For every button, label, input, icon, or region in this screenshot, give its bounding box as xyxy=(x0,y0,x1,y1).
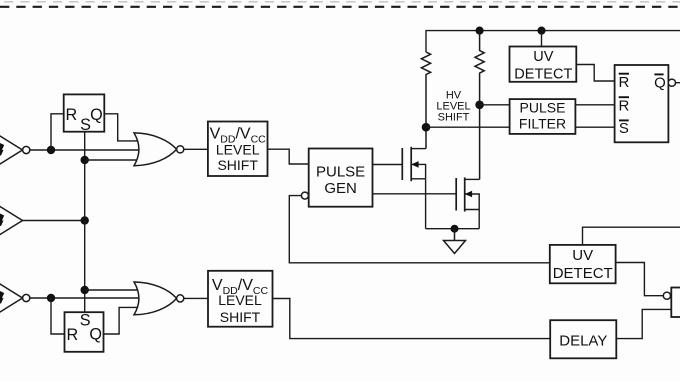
text: level shift 2 xyxy=(212,277,269,325)
svg-text:DELAY: DELAY xyxy=(559,332,607,349)
svg-text:R: R xyxy=(66,106,78,124)
transistor M1 (left HV NMOS) xyxy=(402,147,426,181)
svg-text:PULSE: PULSE xyxy=(520,100,566,116)
dashed outline shadow xyxy=(4,1,680,3)
delay box xyxy=(550,320,616,358)
wire latch U3 Q to NOR2 xyxy=(104,307,139,334)
input buffer B1 (Schmitt inverter, top) xyxy=(0,131,30,169)
svg-text:R: R xyxy=(618,97,629,114)
wire LS2 out to delay xyxy=(273,299,551,339)
svg-text:DETECT: DETECT xyxy=(553,265,613,282)
svg-text:SHIFT: SHIFT xyxy=(217,157,258,173)
node: B3 line / latch2 R xyxy=(47,294,55,302)
pulse gen box xyxy=(301,149,372,207)
wire G1 out to level shift 1 xyxy=(184,148,208,150)
wire R2 node to pulse filter xyxy=(480,104,510,106)
wire latch U1 Q to NOR1 xyxy=(104,114,138,141)
UV detect box UV1 (top) xyxy=(510,47,577,82)
svg-text:Q: Q xyxy=(89,326,102,344)
text: pulse gen xyxy=(316,164,365,198)
node: source rail / ground xyxy=(451,225,459,233)
resistor R2 xyxy=(475,31,484,180)
node: B1 line / latch R xyxy=(47,146,55,154)
text: latch U2 labels xyxy=(618,74,665,137)
svg-text:DETECT: DETECT xyxy=(514,67,572,83)
svg-text:LEVEL: LEVEL xyxy=(218,292,262,308)
pulse filter box xyxy=(510,99,576,134)
NOR gate G2 (bottom) xyxy=(134,282,184,315)
output gate bubble xyxy=(663,292,670,299)
wire M2 source down xyxy=(478,210,480,229)
NOR gate G1 (top) xyxy=(134,133,184,166)
svg-text:Q: Q xyxy=(90,106,103,124)
UV detect box UV2 (lower) xyxy=(550,245,616,283)
text: UV detect 1 xyxy=(514,49,572,83)
node: S line / NOR2 input xyxy=(81,286,89,294)
wire UV2 top to right edge xyxy=(583,227,680,245)
wire pulse gen out to M1 gate xyxy=(373,164,403,166)
node: rail / UV1 xyxy=(537,27,545,35)
text: level shift 1 xyxy=(210,125,267,173)
node: B2 / S line xyxy=(81,216,89,224)
wire delay out to output gate xyxy=(616,309,671,338)
wire G2 out to level shift 2 xyxy=(184,297,208,299)
transistor M2 (right HV NMOS) xyxy=(456,177,479,211)
wire pulse-gen inverted input to UV2 xyxy=(289,196,550,263)
wire S line to NOR2 xyxy=(85,289,139,291)
level shift box LS1 (VDD/VCC LEVEL SHIFT top) xyxy=(208,122,268,177)
text: HV level shift xyxy=(436,89,470,123)
input buffer B2 (Schmitt, middle) xyxy=(0,202,23,240)
wire pulse filter out to latch2 S xyxy=(575,126,614,128)
svg-text:PULSE: PULSE xyxy=(316,164,365,181)
node: R2 / pulse filter wire xyxy=(475,101,484,110)
wire UV1 out to latch2 R1 xyxy=(576,65,614,82)
text: latch U3 labels xyxy=(66,312,102,344)
text: UV detect 2 xyxy=(553,247,613,282)
wire S line (vertical) xyxy=(84,132,86,313)
svg-text:R: R xyxy=(66,326,78,344)
wire B1 output to NOR1 xyxy=(30,149,141,151)
level shift box LS2 (VDD/VCC LEVEL SHIFT bottom) xyxy=(208,271,273,327)
text: pulse filter xyxy=(519,100,566,132)
node: S line / NOR1 input xyxy=(81,156,89,164)
top supply rail xyxy=(426,31,680,52)
input buffer B3 (Schmitt inverter, bottom) xyxy=(0,279,30,317)
svg-text:FILTER: FILTER xyxy=(519,116,566,132)
dashed package outline (top) xyxy=(0,6,680,8)
text: latch U1 labels xyxy=(66,106,103,134)
output gate G3 (cut at edge) xyxy=(671,288,680,318)
svg-text:SHIFT: SHIFT xyxy=(220,309,261,325)
wire U2 Q out xyxy=(676,82,680,84)
wire R1 node to pulse filter xyxy=(426,126,510,128)
wire B3 output to NOR2 xyxy=(30,297,141,299)
text: latch U2 overlines xyxy=(619,74,664,121)
wire common source rail xyxy=(426,228,480,230)
svg-text:GEN: GEN xyxy=(324,180,357,197)
wire pulse filter out to latch2 R2 xyxy=(575,104,614,106)
SR latch U1 (top) xyxy=(64,94,105,131)
wire M1 source down xyxy=(425,179,427,229)
svg-text:S: S xyxy=(619,120,629,137)
wire UV2 out to output gate xyxy=(616,263,664,296)
wire latch U3 R input xyxy=(51,298,65,334)
svg-text:UV: UV xyxy=(533,49,553,65)
svg-text:LEVEL: LEVEL xyxy=(216,142,260,158)
svg-text:SHIFT: SHIFT xyxy=(438,112,470,124)
wire B2 output to S line xyxy=(23,220,85,222)
wire latch U1 R input xyxy=(51,114,64,150)
svg-text:R: R xyxy=(618,74,629,91)
node: R1 / pulse filter wire xyxy=(422,123,431,132)
node: rail / R2 xyxy=(476,27,484,35)
svg-text:UV: UV xyxy=(572,247,593,264)
wire rail to UV1 xyxy=(541,31,543,47)
SR latch U3 (bottom) xyxy=(65,312,104,352)
wire S line to NOR1 xyxy=(85,159,139,161)
wire pulse gen out to M2 gate xyxy=(373,193,457,195)
ground xyxy=(444,229,466,254)
wire LS1 to pulse gen xyxy=(268,149,309,164)
resistor R1 xyxy=(421,52,430,149)
SR latch U2 (right) xyxy=(615,65,676,142)
svg-text:Q: Q xyxy=(654,74,666,91)
